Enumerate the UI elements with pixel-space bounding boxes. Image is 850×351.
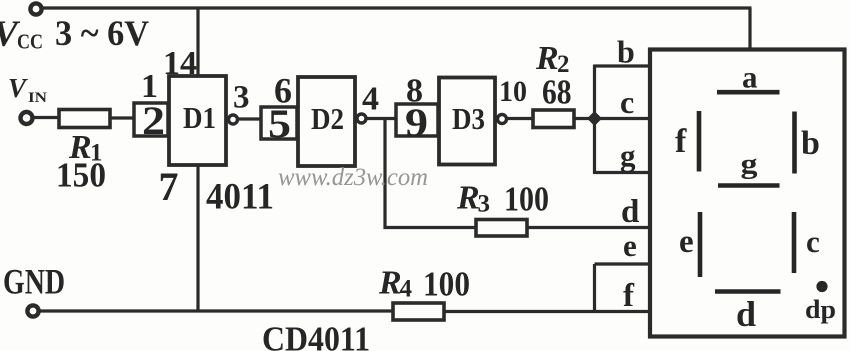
svg-text:68: 68 [542, 73, 572, 112]
svg-text:f: f [675, 123, 687, 160]
svg-text:a: a [742, 60, 758, 95]
svg-text:D2: D2 [311, 101, 344, 136]
svg-text:c: c [806, 224, 820, 259]
svg-text:5: 5 [268, 101, 291, 146]
svg-text:e: e [679, 224, 694, 260]
svg-text:R: R [535, 40, 559, 77]
svg-text:R: R [378, 265, 402, 302]
svg-text:b: b [617, 34, 635, 70]
svg-text:100: 100 [423, 265, 470, 304]
svg-text:e: e [623, 228, 637, 263]
svg-text:10: 10 [499, 75, 527, 108]
svg-text:d: d [736, 294, 756, 334]
svg-text:CD4011: CD4011 [262, 320, 370, 351]
svg-text:100: 100 [504, 180, 549, 219]
svg-text:f: f [623, 278, 635, 314]
svg-text:V: V [8, 73, 28, 103]
svg-text:7: 7 [159, 164, 179, 209]
svg-text:14: 14 [163, 45, 197, 82]
svg-text:IN: IN [28, 90, 47, 106]
svg-text:4: 4 [400, 276, 413, 303]
svg-text:D1: D1 [183, 100, 216, 135]
svg-text:dp: dp [805, 295, 836, 324]
svg-text:g: g [741, 148, 759, 180]
svg-text:3: 3 [233, 80, 250, 116]
svg-text:3: 3 [478, 191, 491, 218]
svg-text:4: 4 [362, 81, 379, 118]
svg-text:9: 9 [405, 100, 428, 145]
svg-text:d: d [621, 194, 639, 230]
svg-text:R: R [456, 180, 480, 217]
svg-text:c: c [620, 84, 634, 120]
svg-text:4011: 4011 [206, 177, 274, 218]
svg-text:g: g [620, 138, 636, 173]
svg-text:CC: CC [17, 30, 43, 54]
svg-text:b: b [801, 125, 820, 162]
svg-text:D3: D3 [452, 101, 485, 136]
svg-text:GND: GND [3, 262, 65, 302]
svg-text:www.dz3w.com: www.dz3w.com [278, 164, 428, 191]
svg-text:2: 2 [142, 98, 165, 143]
svg-text:150: 150 [56, 156, 106, 195]
svg-text:3 ~ 6V: 3 ~ 6V [55, 13, 149, 53]
